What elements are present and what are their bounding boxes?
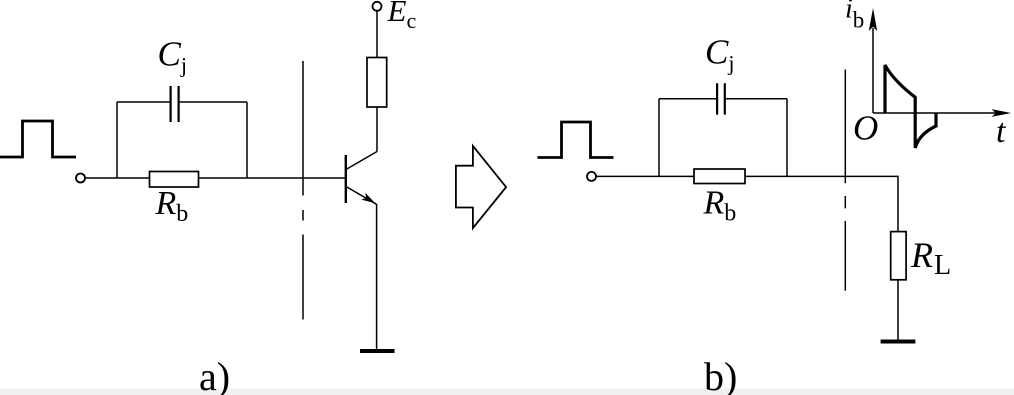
input pulse waveform a [0, 121, 76, 157]
wire corner down to RL [897, 176, 899, 232]
wire emitter vertical [376, 204, 378, 349]
svg-text:t: t [996, 113, 1007, 150]
dash-dot boundary line (b) [844, 70, 846, 291]
wire resistor to Ec [376, 11, 378, 58]
wire input to base [85, 177, 345, 179]
wire collector vertical [376, 107, 378, 152]
resistor RL body [891, 232, 906, 280]
resistor Rb (b) body [694, 169, 745, 184]
graph vertical axis arrowhead [869, 8, 877, 31]
transistor Q1 collector diagonal [346, 152, 377, 170]
wire loop left vertical [116, 102, 118, 178]
ground (a) [360, 349, 395, 353]
input pulse waveform b [538, 122, 614, 158]
graph horizontal axis arrowhead [992, 109, 1012, 117]
svg-text:O: O [853, 109, 878, 148]
wire loop top right [180, 101, 247, 103]
bottom gray strip [0, 389, 1014, 395]
svg-text:b): b) [704, 354, 737, 395]
ground (b) [881, 340, 916, 344]
wire loop top left b [659, 98, 716, 100]
capacitor C2 plates (Cj) [717, 83, 725, 114]
graph horizontal axis t [873, 112, 997, 114]
resistor Rb (a) body [150, 172, 199, 188]
dash-dot boundary line (a) [302, 61, 304, 320]
terminal Ec node [373, 2, 382, 11]
transistor Q1 emitter diagonal [346, 187, 377, 205]
wire loop right vertical b [786, 99, 788, 177]
input terminal node a [76, 174, 85, 183]
waveform ib curve [885, 65, 936, 148]
graph vertical axis ib [872, 28, 874, 113]
input terminal node b [587, 172, 596, 181]
wire loop top right b [726, 98, 787, 100]
wire input to corner [596, 175, 898, 177]
transistor Q1 base bar [345, 155, 347, 203]
block arrow between circuits [456, 146, 506, 228]
wire loop top left [117, 101, 170, 103]
wire loop right vertical [246, 102, 248, 178]
capacitor C1 plates (Cj) [171, 86, 179, 122]
resistor Rc body [367, 58, 387, 108]
transistor Q1 emitter arrowhead [361, 193, 375, 204]
svg-text:a): a) [199, 354, 230, 395]
wire loop left vertical b [658, 99, 660, 177]
wire RL to ground [897, 280, 899, 340]
